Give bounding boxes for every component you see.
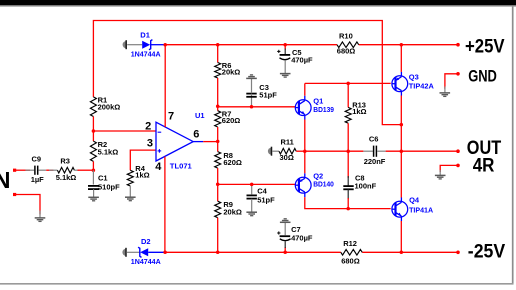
- node C4 junction: [250, 183, 254, 187]
- bottom window border: [0, 283, 514, 285]
- node R9 bottom junction: [216, 251, 220, 255]
- svg-text:U1: U1: [195, 111, 205, 120]
- capacitor C9: [31, 154, 47, 184]
- node C5 junction: [283, 43, 287, 47]
- ground R4: [125, 197, 136, 201]
- transistor Q4 TIP41A: [392, 196, 434, 221]
- wire pin 3 to R4 top: [130, 150, 156, 170]
- wire Q4 emitter to -25V rail: [400, 221, 402, 252]
- node A R2/R3/C1 junction: [92, 168, 96, 172]
- svg-text:1µF: 1µF: [31, 175, 44, 184]
- label IN (clipped): [0, 167, 10, 193]
- svg-text:C1: C1: [98, 173, 108, 182]
- wire R1 to node B: [92, 117, 94, 132]
- wire R6 to node C: [217, 78, 219, 106]
- svg-text:3: 3: [147, 137, 153, 149]
- svg-text:1N4744A: 1N4744A: [131, 50, 161, 59]
- terminal -25V: [456, 251, 460, 255]
- node R6 top junction: [216, 43, 220, 47]
- node Q4 emitter joins -25V: [400, 251, 404, 255]
- terminal R11 left: [268, 147, 272, 156]
- transistor Q2 BD140: [295, 172, 334, 198]
- svg-text:BD140: BD140: [313, 180, 334, 189]
- top window border bar: [0, 0, 516, 7]
- terminal D1 anode: [123, 40, 127, 49]
- wire node C to Q1 base: [218, 106, 296, 108]
- svg-text:200kΩ: 200kΩ: [98, 103, 121, 112]
- resistor R11: [272, 137, 296, 162]
- svg-text:51pF: 51pF: [257, 195, 275, 204]
- wire Q1 collector to Q3 base: [305, 83, 391, 95]
- wire R3 to node A: [74, 169, 93, 171]
- diode D2 1N4744A: [127, 237, 165, 266]
- right window border: [512, 6, 514, 284]
- node output column joins OUT: [400, 149, 404, 153]
- wire Q1 emitter to OUT line: [304, 120, 306, 152]
- wire IN to C9: [15, 169, 35, 171]
- resistor R8: [215, 141, 242, 184]
- node feedback joins output column: [400, 123, 404, 127]
- svg-text:Q4: Q4: [409, 196, 420, 205]
- node C7 junction: [283, 251, 287, 255]
- label OUT: [467, 137, 501, 159]
- svg-text:D1: D1: [140, 30, 150, 39]
- terminal +25V: [456, 43, 460, 47]
- label 4R: [473, 155, 495, 177]
- node C8 top junction: [346, 149, 350, 153]
- capacitor C8: [343, 151, 376, 208]
- wire input ground branch: [15, 195, 40, 218]
- terminal OUT: [456, 149, 460, 153]
- wire pin 7 to positive zener rail: [164, 45, 166, 127]
- label +25V: [465, 36, 505, 58]
- resistor R10: [337, 31, 359, 55]
- wire node B to pin 2: [93, 130, 156, 132]
- ground C5: [280, 74, 291, 78]
- wire R11 to node E: [296, 150, 305, 152]
- svg-text:TIP41A: TIP41A: [409, 206, 434, 215]
- node D2 cathode junction: [163, 251, 167, 255]
- wire OUT line: [305, 150, 458, 152]
- pin 6 label: [193, 129, 199, 141]
- resistor R13: [345, 83, 366, 151]
- wire pin 4 to negative zener rail: [164, 157, 166, 253]
- svg-text:GND: GND: [468, 67, 497, 85]
- resistor R9: [215, 184, 242, 252]
- transistor Q1 BD139: [295, 96, 334, 120]
- op-amp U1 TL071: [156, 111, 205, 170]
- wire Q4 collector to OUT: [400, 151, 402, 197]
- svg-text:1kΩ: 1kΩ: [135, 171, 149, 180]
- node pin6/R7/R8 junction: [216, 140, 220, 144]
- svg-text:510pF: 510pF: [98, 182, 120, 191]
- node Q3 emitter joins +25V: [400, 43, 404, 47]
- resistor R2: [90, 131, 118, 170]
- resistor R4: [127, 164, 149, 197]
- ground GND: [440, 93, 451, 97]
- svg-text:Q3: Q3: [409, 72, 419, 81]
- ground 4R: [435, 175, 446, 179]
- svg-text:R11: R11: [281, 137, 294, 146]
- node D1 cathode junction: [163, 43, 167, 47]
- svg-text:TL071: TL071: [170, 161, 192, 170]
- svg-text:7: 7: [168, 111, 174, 123]
- svg-text:2: 2: [145, 121, 151, 133]
- capacitor C3: [246, 79, 277, 107]
- svg-text:51pF: 51pF: [259, 90, 277, 99]
- svg-text:470µF: 470µF: [291, 55, 313, 64]
- wire C9 to R3: [46, 169, 57, 171]
- svg-text:680Ω: 680Ω: [341, 256, 360, 265]
- node C8 bottom junction: [346, 207, 350, 211]
- terminal D2 anode: [122, 248, 126, 257]
- svg-text:+25V: +25V: [465, 36, 505, 58]
- node R13 top junction: [346, 82, 350, 86]
- pin 3 label: [147, 137, 153, 149]
- wire node D to Q2 base: [218, 183, 296, 185]
- capacitor C1: [88, 170, 120, 197]
- wire negative zener rail: [165, 251, 458, 253]
- terminal 4R: [440, 164, 460, 176]
- node B R1/R2/pin2 junction: [92, 129, 96, 133]
- wire feedback rail from OUT to R1 top: [93, 21, 401, 125]
- ground C3 inverted: [246, 75, 257, 79]
- diode D1 1N4744A: [127, 30, 165, 58]
- resistor R3: [56, 157, 77, 182]
- svg-text:6: 6: [193, 129, 199, 141]
- pin 4 label: [155, 161, 162, 173]
- svg-text:220nF: 220nF: [364, 157, 386, 166]
- wire Q3 collector to OUT: [400, 96, 402, 152]
- resistor R6: [215, 45, 241, 78]
- resistor R7: [215, 106, 241, 141]
- input terminal IN signal: [13, 169, 16, 172]
- svg-text:1N4744A: 1N4744A: [131, 257, 161, 266]
- pin 7 label: [168, 111, 174, 123]
- node C3 junction: [250, 105, 254, 109]
- ground C1: [88, 197, 99, 201]
- label GND: [468, 67, 497, 85]
- svg-text:4R: 4R: [473, 155, 495, 177]
- wire Q2 collector to node E: [304, 151, 306, 173]
- node D R8/R9/Q2-base junction: [216, 182, 220, 186]
- ground C7 inverted: [280, 219, 291, 223]
- svg-text:5.1kΩ: 5.1kΩ: [56, 173, 77, 182]
- pin 2 label: [145, 121, 151, 133]
- wire pin 6 output: [203, 141, 218, 143]
- svg-text:20kΩ: 20kΩ: [222, 68, 241, 77]
- wire Q3 emitter to +25V: [400, 45, 402, 72]
- svg-text:N: N: [0, 167, 10, 193]
- svg-text:100nF: 100nF: [355, 182, 377, 191]
- svg-text:BD139: BD139: [313, 105, 334, 114]
- capacitor C6: [363, 135, 385, 167]
- svg-text:-25V: -25V: [468, 240, 505, 262]
- ground input: [35, 218, 46, 222]
- capacitor C7 electrolytic: [277, 223, 313, 253]
- svg-text:C4: C4: [257, 187, 267, 196]
- svg-text:C9: C9: [32, 154, 42, 163]
- ground C4: [246, 212, 257, 216]
- wire Q2 emitter line to Q4 base: [305, 197, 391, 209]
- svg-text:R12: R12: [343, 239, 357, 248]
- wire positive zener rail: [165, 44, 458, 46]
- svg-text:4: 4: [155, 161, 162, 173]
- svg-text:5.1kΩ: 5.1kΩ: [98, 148, 119, 157]
- svg-text:R10: R10: [339, 31, 353, 40]
- svg-text:D2: D2: [141, 237, 151, 246]
- resistor R12: [341, 239, 362, 266]
- node C R6/R7/Q1-base junction: [216, 105, 220, 109]
- capacitor C5 electrolytic: [277, 45, 313, 74]
- input terminal ground side: [13, 193, 16, 196]
- svg-text:620Ω: 620Ω: [223, 158, 242, 167]
- svg-text:680Ω: 680Ω: [337, 46, 356, 55]
- svg-text:C6: C6: [369, 135, 379, 144]
- svg-text:20kΩ: 20kΩ: [223, 207, 242, 216]
- capacitor C4: [247, 184, 276, 212]
- node E driver output junction: [303, 149, 307, 153]
- svg-text:30Ω: 30Ω: [280, 153, 294, 162]
- svg-text:R3: R3: [60, 157, 70, 166]
- label -25V: [468, 240, 505, 262]
- svg-text:470µF: 470µF: [291, 233, 313, 242]
- terminal GND: [445, 72, 460, 93]
- svg-text:1kΩ: 1kΩ: [352, 107, 366, 116]
- svg-text:TIP42A: TIP42A: [409, 81, 435, 90]
- resistor R1: [90, 95, 120, 116]
- transistor Q3 TIP42A: [392, 72, 435, 96]
- svg-text:620Ω: 620Ω: [222, 116, 241, 125]
